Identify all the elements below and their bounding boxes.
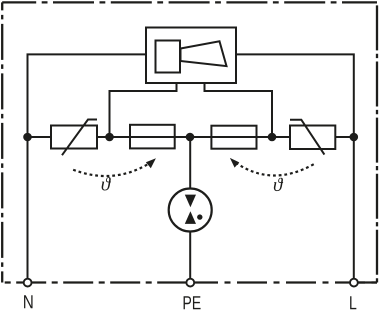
label theta left [102,177,111,190]
junction node N-bus [23,133,32,142]
wire: right branch up from L to signalling device [236,54,354,278]
label theta right [274,178,283,191]
junction node left signal tap [105,133,114,142]
label N [24,295,32,308]
wire: spark gap to PE terminal [189,223,191,279]
signalling device U1 (remote signalling contact with horn symbol) [146,28,236,84]
disconnector F1 (left thermal disconnect device) [130,125,175,149]
terminal PE [186,279,194,287]
thermal trip arrow left (dashed arc) [71,158,156,176]
wire: main bus through disconnectors [97,136,290,138]
label L [350,296,356,309]
thermal trip arrow right (dashed arc) [230,158,314,176]
disconnector F2 (right thermal disconnect device) [211,126,256,149]
wire: bus segment N-side [28,136,52,138]
junction node L-bus [350,133,359,142]
varistor RV2 (right, with thermal disconnect diagonal) [290,120,335,155]
junction node right signal tap [268,133,277,142]
terminal N [24,279,32,287]
junction node PE-bus [186,133,195,142]
label PE [184,296,201,309]
wire: signalling device left lead down to bus [110,83,177,137]
varistor RV1 (left, with thermal disconnect diagonal) [51,120,97,156]
wire: signalling device right lead down to bus [205,83,273,137]
wire: PE drop to spark gap [189,137,191,196]
wire: left branch up from N to signalling device [28,54,147,278]
gas discharge tube F1 (spark gap N-PE) [169,189,212,232]
terminal L [350,279,358,287]
wire: bus segment L-side [335,136,354,138]
